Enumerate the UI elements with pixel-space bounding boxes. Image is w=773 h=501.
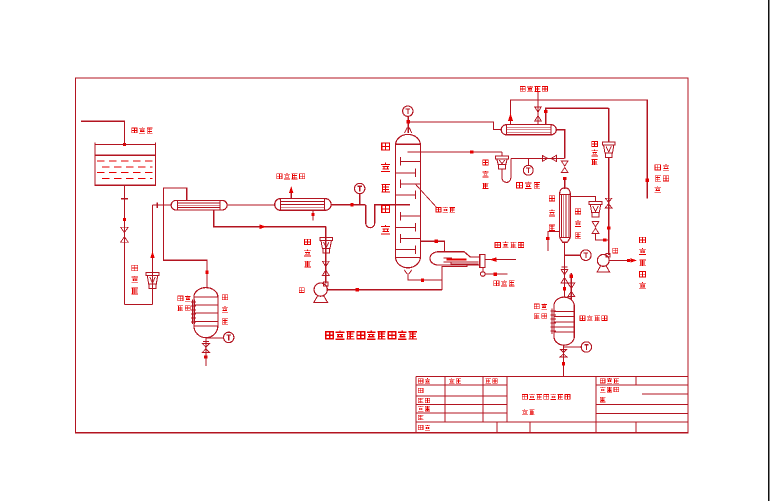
thermometer TI1 on feed line xyxy=(355,183,365,193)
flowmeter R5 (cw rotameter) xyxy=(589,202,602,205)
pump P2 casing xyxy=(597,255,609,267)
wire: E2 outlet to column feed xyxy=(331,204,366,206)
pump P2 base xyxy=(597,266,609,272)
valve V7 on distillate leg xyxy=(605,198,612,208)
title block row label 审核 xyxy=(418,406,423,411)
E2 tube sheets xyxy=(281,199,325,211)
arrow: discharge right xyxy=(631,258,637,262)
wire: E1 outlet to E2 xyxy=(227,204,276,206)
title block right 设计班 xyxy=(600,379,605,383)
label 流量计 (flowmeter top right) xyxy=(592,141,598,146)
node on P1 discharge xyxy=(356,288,359,291)
wire: tank drain xyxy=(563,345,565,376)
label 冷却水泵口 (right standpipe) xyxy=(655,165,661,170)
wire: feed bottom run to flowmeter leg xyxy=(124,304,152,306)
wire: reboiler liquid draw from column xyxy=(420,241,444,252)
label 浮阀板 (valve tray) with leader xyxy=(436,207,441,211)
E2 tubes xyxy=(281,202,325,208)
wire: cooling water feed (right) xyxy=(570,197,595,202)
node on tank outlet pipe xyxy=(123,218,126,221)
valve V9 on cooler inlet xyxy=(561,161,568,173)
flange tick on tank outlet xyxy=(121,198,128,200)
heat exchanger E1 shell (preheater) xyxy=(171,200,227,210)
reboiler E3 shell xyxy=(430,252,480,265)
label 泵 (pump P1) xyxy=(299,288,304,293)
label 乙醇精馏工艺流程图 (drawing title) xyxy=(326,332,334,339)
reboiler internal tube bundle xyxy=(444,258,479,264)
node at tank drain xyxy=(562,362,565,365)
drawing border frame xyxy=(76,78,689,433)
title block row label 设 xyxy=(418,388,423,392)
label 产品储罐 (product tank) xyxy=(580,316,585,321)
node on reflux line xyxy=(470,150,473,153)
wire: E1 bottom outlet to pump leg xyxy=(214,210,326,227)
arrow: steam in (up) xyxy=(289,186,294,193)
flowmeter R2 (rotameter at pump P1) xyxy=(320,238,333,241)
title block row label 制图 xyxy=(418,425,423,429)
condenser E4 shell xyxy=(501,125,556,135)
wire: HX1 inlet stub xyxy=(153,204,172,206)
column C1 (乙醇精馏塔) shell xyxy=(396,134,421,267)
label 流量计 (cw flowmeter) xyxy=(575,209,581,214)
thermometer TI3 at kettle bottom xyxy=(206,338,224,341)
wire: flowmeter riser to HX1 xyxy=(152,205,154,305)
title block drawing name line1 乙醇精馏工艺流 xyxy=(522,394,527,399)
title block drawing name line2 程图 xyxy=(522,409,528,415)
title block right 段 xyxy=(600,397,605,402)
pump P1 base xyxy=(314,296,328,302)
wire: steam inlet to reboiler xyxy=(485,259,516,261)
heat exchanger E2 shell (feed heater) xyxy=(275,199,331,211)
reboiler right flange xyxy=(480,255,485,268)
label 饱和蒸汽 (saturated steam, reboiler) xyxy=(495,242,500,247)
wire: P1 discharge to column bottom xyxy=(327,289,442,291)
flowmeter R1 (rotameter, feed) xyxy=(146,273,159,276)
valve V3 at P1 suction xyxy=(322,261,329,275)
column top nozzle taper xyxy=(405,128,412,134)
arrow: flow right on E1 bottom outlet xyxy=(260,224,267,229)
flange tick kettle drain xyxy=(203,340,209,342)
node on tank inlet xyxy=(563,287,566,290)
cooler E5 shell xyxy=(560,188,571,242)
wire: E2 bottom condensate stub xyxy=(312,210,314,220)
arrow: steam into reboiler (left) xyxy=(490,257,497,262)
label 冷却水进口 (cw inlet) xyxy=(640,237,646,242)
title block header 签字 xyxy=(449,378,454,383)
label 流量计 (flowmeter, feed) xyxy=(132,265,138,271)
wire: kettle drain outfall xyxy=(205,341,207,366)
thermometer TI5 below cooler xyxy=(565,254,581,256)
wire: reflux rotameter U-tube xyxy=(502,158,511,182)
node on condensate line xyxy=(494,273,497,276)
valve V8 (gate) on reflux run xyxy=(542,155,556,161)
flange tick on HX1 inlet xyxy=(156,202,158,208)
flange tick on tank inlet xyxy=(561,266,567,268)
title block header 日期 xyxy=(486,379,491,384)
arrow: flow up to HX1 xyxy=(150,251,155,258)
title block right 设计阶 xyxy=(600,387,605,392)
label 流量计 (reflux flowmeter) xyxy=(483,160,488,165)
valve V6 减压阀门 (pressure relief) xyxy=(535,107,542,121)
node on kettle feed line xyxy=(205,271,208,274)
label 冷却器 (cooler) xyxy=(549,196,555,201)
steam trap on reboiler condensate xyxy=(482,267,484,271)
valve V1 on tank outlet xyxy=(121,227,129,242)
wire: condensate line xyxy=(485,273,508,275)
wire: condensate vent branch xyxy=(546,108,609,124)
label 饱和蒸汽 (saturated steam E2) xyxy=(277,174,282,179)
wire: overhead vapour line to condenser xyxy=(408,122,501,130)
wire: cooling water out (left) xyxy=(548,232,560,252)
tank liquid hatch (dashed) xyxy=(97,161,153,178)
thermometer TI4 (温度计) on reflux run xyxy=(527,158,529,165)
valve V13 xyxy=(568,283,575,297)
node: inlet junction at tank rim xyxy=(123,143,126,146)
title block row label 批 xyxy=(418,415,423,420)
E1 tubes xyxy=(178,203,221,208)
E4 tube sheets xyxy=(507,125,552,135)
node on distillate leg xyxy=(607,226,610,229)
label 液位指示 (level gauge, kettle) xyxy=(178,296,183,301)
label 乙醇精馏塔 (column name) xyxy=(382,143,390,150)
valve V5 kettle drain xyxy=(202,344,209,353)
wire: feed inlet line to head tank xyxy=(81,121,124,143)
node on E2 bottom stub xyxy=(311,213,314,216)
node on reboiler draw xyxy=(435,240,438,243)
wire: E1 shell top loop xyxy=(164,188,187,205)
thermometer TI2 on column top xyxy=(403,106,413,116)
arrow: vent up from condenser xyxy=(508,113,513,121)
node above cooler xyxy=(563,177,566,180)
screenshot window edge (vertical black line) xyxy=(768,0,770,501)
node on second line xyxy=(570,275,573,278)
wire: reboiler bottom return loop xyxy=(442,265,467,280)
pump P1 casing xyxy=(314,283,327,296)
label 减压阀门 (relief valve) xyxy=(520,87,525,92)
wire: column bottom outlet xyxy=(408,273,442,290)
wire: second line into tank xyxy=(570,273,572,300)
flowmeter R3 (reflux rotameter) xyxy=(501,152,503,156)
title block header 职责 xyxy=(418,379,423,383)
wire: vacuum manifold xyxy=(511,100,648,199)
wire: condenser outlet drop xyxy=(556,130,564,159)
wire: reflux line into column xyxy=(407,151,502,153)
label 液位指示 (level gauge, tank) xyxy=(534,304,539,309)
wire: pump P1 suction drop xyxy=(325,227,327,284)
node on cw out xyxy=(546,237,549,240)
label 高位槽 (head tank) xyxy=(132,128,137,133)
label 再沸釜 (kettle name) xyxy=(222,295,227,300)
valve V11 on tank inlet xyxy=(561,269,568,283)
tank level gauge xyxy=(552,308,554,334)
tank liquid surface line xyxy=(96,154,156,156)
node at pump suction tee xyxy=(603,238,606,241)
wire: tank outlet drop pipe xyxy=(123,185,125,304)
node at overhead takeoff xyxy=(407,120,410,123)
wire: relief valve line into condenser xyxy=(537,92,539,125)
wire: E1 branch down to still kettle xyxy=(164,205,208,288)
flowmeter R4 (rotameter, top right) xyxy=(602,142,615,145)
wire: feed U-seal loop xyxy=(366,205,396,228)
kettle internal lines xyxy=(194,297,218,326)
E1 tube sheets xyxy=(178,200,221,210)
label 温度计 (thermometer) xyxy=(516,182,522,187)
wire: E2 steam inlet stub xyxy=(290,188,292,199)
tank: 高位槽 head tank shell xyxy=(95,143,156,186)
wire: cooler inlet from valve chain xyxy=(564,178,566,189)
wire: reflux run to junction xyxy=(511,157,565,159)
cooler E5 tubes xyxy=(562,194,569,237)
wire: P2 discharge xyxy=(609,259,633,261)
title block grid xyxy=(416,377,688,433)
column trays (浮阀板) xyxy=(396,157,421,254)
valve V15 at tank drain xyxy=(560,349,566,356)
wire: R5 outlet to pump suction xyxy=(596,234,609,241)
E4 tubes xyxy=(507,127,552,132)
valve V10 under R5 xyxy=(592,221,599,233)
wire: feed line into column xyxy=(396,204,411,206)
label 冷凝水 (condensate) xyxy=(494,281,499,286)
label 泵 (pump P2) xyxy=(613,248,618,253)
node on column bottom line xyxy=(421,279,424,282)
node on vent branch xyxy=(544,110,547,113)
title block row label 绘 xyxy=(418,398,423,403)
node on manifold drop leg xyxy=(646,179,649,182)
node kettle drain xyxy=(204,355,207,358)
kettle B1 shell xyxy=(194,288,218,338)
wire: distillate drop leg xyxy=(608,108,610,255)
thermometer TI6 at tank drain xyxy=(564,346,582,348)
tank D1 internal lines xyxy=(554,311,574,332)
node on P2 discharge xyxy=(627,259,630,262)
tank D1 (产品储罐) shell xyxy=(554,297,574,345)
label 流量计 (flowmeter, P1) xyxy=(305,239,311,244)
column bottom nozzle taper xyxy=(404,270,411,274)
kettle level gauge xyxy=(192,300,194,324)
wire: cooler outlet to tank xyxy=(564,242,566,297)
node on feed line xyxy=(350,203,353,206)
